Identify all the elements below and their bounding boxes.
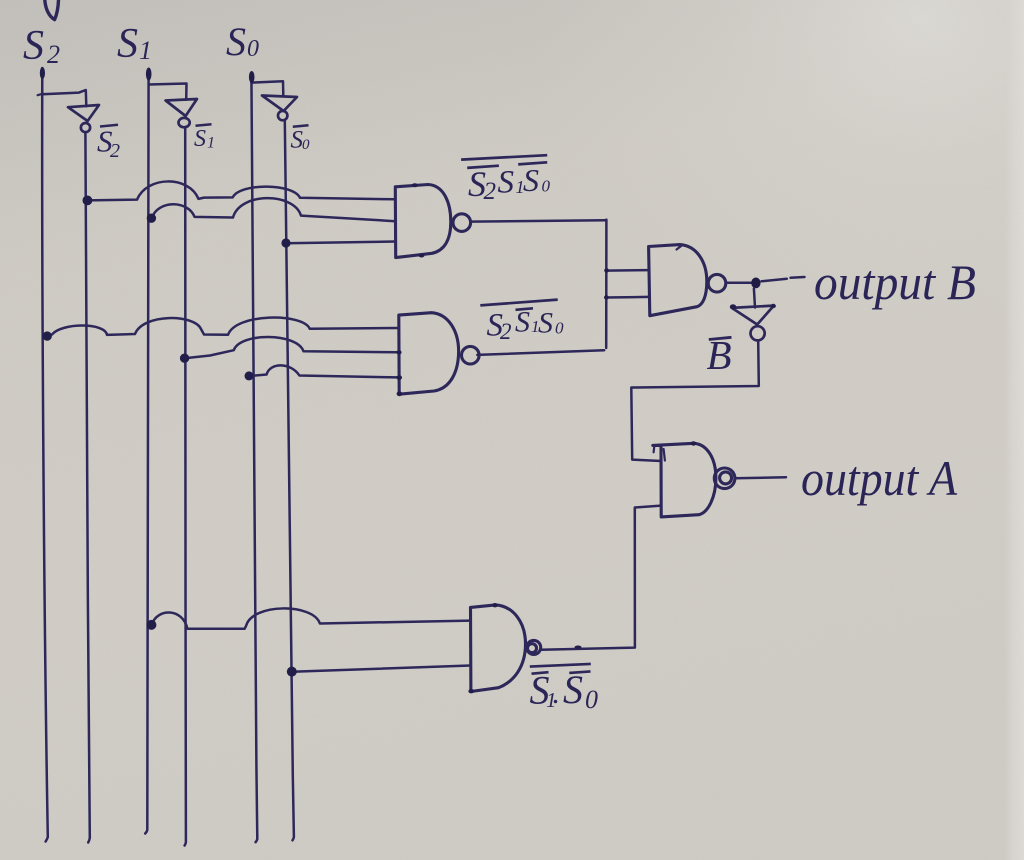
wire G5 output up to G4 input 2 (541, 506, 661, 650)
pen knot routing joints at node column (604, 268, 609, 272)
wire G2 output to node (477, 350, 604, 355)
pen tick on G5 output (575, 646, 582, 649)
label S0bar (291, 125, 311, 153)
pen blob S0 rail top (249, 71, 255, 83)
nand gate G1 (3-input) (395, 185, 470, 258)
stray pen mark (cut-off stroke at top edge) (45, 0, 59, 20)
node S2 tap (43, 331, 52, 340)
wire S2bar to gate G1 input 1 (with hops) (87, 181, 395, 200)
pen knot G1 top edge (412, 183, 418, 187)
inverter U2 (S1 to S1bar) (166, 99, 197, 127)
wire S1 to gate G5 input 1 (with hops) (152, 608, 471, 628)
wire junction to output B label (762, 277, 805, 281)
svg-text:S: S (523, 162, 539, 198)
inverter U4 (B to Bbar) (732, 306, 774, 341)
wire S0 to gate G2 input 3 (with hop) (249, 365, 398, 377)
wire branch S2 to inverter U1 (42, 90, 86, 106)
pen knot G4 top corner (691, 441, 697, 445)
svg-text:.: . (553, 677, 561, 710)
nand gate G4 (output A) (653, 443, 735, 517)
pen tick at S2 branch (38, 94, 44, 96)
svg-text:2: 2 (500, 319, 512, 344)
wire branch S0 to inverter U3 (252, 81, 284, 96)
inverter U3 (S0 to S0bar) (262, 96, 297, 121)
inverter U1 (S2 to S2bar) (68, 105, 99, 132)
wire S1 vertical rail (145, 70, 148, 834)
svg-text:output B: output B (814, 254, 976, 310)
node S2bar tap (83, 196, 93, 206)
wire vertical routing node to gate G3 inputs (605, 220, 608, 348)
node output B junction (751, 278, 760, 289)
pen blob S2 rail top (40, 67, 45, 79)
node S1 tap 1 (147, 214, 156, 223)
wire S2 to gate G2 input 1 (with hops) (47, 318, 397, 337)
wire S2 vertical rail (42, 68, 48, 842)
pen knot U4 triangle vertices (730, 304, 736, 309)
wire G1 output to node (470, 220, 605, 221)
svg-text:B: B (707, 332, 732, 378)
nand gate G5 (bottom) (471, 605, 541, 692)
wire S1bar vertical rail (185, 127, 186, 846)
node S1bar tap (180, 354, 189, 363)
svg-text:S: S (563, 667, 583, 712)
svg-text:S: S (498, 165, 515, 201)
pen knot G2 input joints (396, 350, 401, 354)
svg-text:S: S (515, 306, 530, 339)
svg-text:S: S (23, 23, 44, 69)
wire G3 output to junction (726, 281, 751, 284)
svg-text:1: 1 (207, 135, 215, 152)
svg-text:output A: output A (801, 450, 957, 506)
nand gate G3 (output B) (649, 245, 726, 316)
svg-text:0: 0 (302, 137, 310, 153)
wire S0bar vertical rail (285, 120, 294, 840)
label S2 (input) (23, 23, 60, 69)
svg-text:1: 1 (139, 36, 152, 65)
svg-text:2: 2 (110, 140, 120, 162)
wire stub to G3 input 2 (606, 296, 649, 299)
pen blob S1 rail top (146, 68, 152, 81)
label G1 output S2bar S1 S0bar (461, 155, 550, 205)
label S1 (input) (117, 21, 152, 67)
svg-text:S: S (117, 21, 138, 67)
svg-text:0: 0 (585, 685, 598, 714)
wire stub to G3 input 1 (606, 269, 649, 272)
label Bbar (707, 332, 732, 378)
svg-text:S: S (226, 19, 246, 64)
node S1 tap 2 (146, 620, 156, 630)
label S1bar (194, 124, 215, 152)
wire S2bar vertical rail (85, 132, 89, 843)
svg-text:S: S (538, 307, 553, 340)
wire junction down to inverter U4 (754, 289, 755, 308)
svg-text:2: 2 (47, 40, 60, 69)
node S0 tap (245, 371, 254, 380)
label G5 output S1bar . S0bar (530, 664, 599, 714)
svg-text:0: 0 (555, 319, 564, 338)
wire S1 to gate G1 input 2 (with hops) (152, 198, 396, 221)
label S2bar (97, 124, 120, 163)
node S0bar tap 1 (281, 238, 290, 247)
label G2 output S2 S1bar S0 (480, 300, 564, 344)
svg-text:S: S (194, 126, 206, 152)
pen knot G5 corners (492, 603, 498, 607)
svg-text:0: 0 (542, 177, 551, 196)
svg-text:2: 2 (484, 178, 497, 205)
wire G4 output to label (735, 477, 786, 478)
nand gate G2 (3-input) (399, 313, 479, 395)
wire Bbar to gate G4 input 1 (631, 341, 759, 461)
svg-text:0: 0 (247, 36, 259, 62)
wire branch S1 to inverter U2 (149, 84, 187, 100)
node S0bar tap 2 (287, 667, 297, 677)
wire S0 vertical rail (251, 74, 257, 843)
wire S1bar to gate G2 input 2 (with hop) (185, 337, 398, 358)
label S0 (input) (226, 19, 259, 64)
wire S0bar to gate G1 input 3 (286, 242, 395, 244)
wire S0bar to gate G5 input 2 (292, 666, 471, 672)
